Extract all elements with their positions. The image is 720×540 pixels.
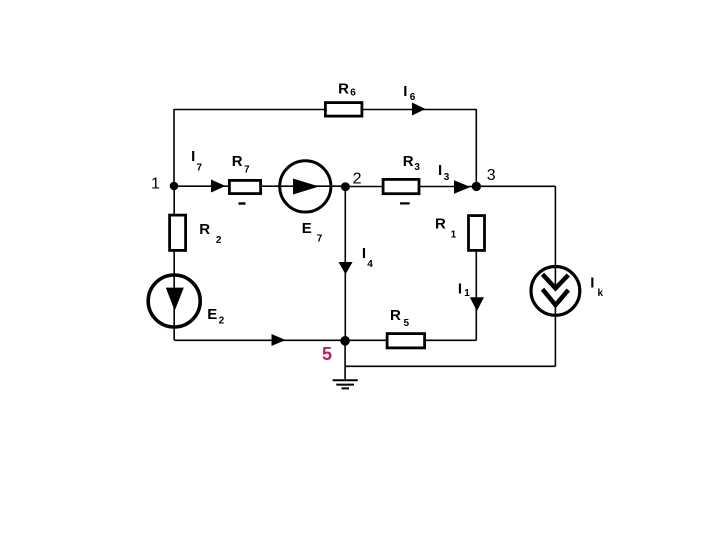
svg-text:1: 1 (151, 175, 160, 192)
current arrow I6 (403, 83, 425, 116)
svg-text:R: R (232, 153, 243, 170)
wire node2 down to node5 (344, 187, 346, 342)
wire right vertical into Ik top (554, 186, 556, 288)
node 1 (151, 175, 178, 192)
svg-text:1: 1 (451, 229, 457, 240)
svg-text:6: 6 (410, 92, 416, 103)
resistor R3 (383, 153, 420, 194)
node 5 (322, 336, 350, 364)
wire top-right vertical (down to node3) (475, 109, 477, 186)
svg-text:2: 2 (353, 171, 362, 188)
svg-text:3: 3 (414, 162, 420, 173)
current arrow I4 (339, 245, 374, 275)
wire top horizontal (174, 109, 476, 111)
svg-text:k: k (598, 288, 604, 299)
svg-text:5: 5 (404, 318, 410, 329)
current arrow I3 (438, 162, 471, 194)
svg-text:3: 3 (444, 172, 450, 183)
svg-text:6: 6 (350, 88, 356, 99)
svg-text:R: R (435, 216, 446, 233)
value dash under R3 (400, 202, 410, 204)
svg-text:I: I (590, 275, 594, 292)
ground stem (344, 341, 346, 379)
svg-text:3: 3 (487, 167, 496, 184)
svg-text:E: E (207, 306, 217, 323)
current arrow I7 (191, 148, 225, 193)
svg-text:R: R (390, 307, 401, 324)
svg-text:2: 2 (219, 316, 225, 327)
resistor R5 (387, 307, 425, 348)
svg-text:I: I (438, 162, 442, 179)
svg-text:7: 7 (197, 162, 203, 173)
svg-text:I: I (362, 245, 366, 262)
wire E2 bottom corner (173, 328, 175, 340)
resistor R2 (170, 215, 222, 250)
current arrow on bottom wire (272, 334, 286, 346)
current source Ik (531, 267, 604, 316)
wire node1 down through R2 to E2 (173, 186, 175, 274)
resistor R1 (435, 216, 485, 251)
svg-text:1: 1 (464, 288, 470, 299)
current arrow I1 (458, 280, 484, 311)
svg-text:I: I (403, 83, 407, 100)
wire node3 to right corner (476, 185, 555, 187)
wire node1 to node2 (174, 185, 345, 187)
svg-text:5: 5 (322, 344, 332, 364)
node 2 (341, 171, 362, 192)
svg-text:R: R (403, 153, 414, 170)
wire R1 vertical down (475, 251, 477, 340)
wire lower horizontal (Ik to ground stem) (345, 365, 555, 367)
resistor R6 (325, 80, 362, 116)
svg-text:R: R (338, 80, 349, 97)
source E2 (148, 275, 224, 327)
wire E2 internal (173, 274, 175, 328)
resistor R7 (229, 153, 260, 194)
wire node2 to node3 (345, 186, 476, 188)
source E7 (280, 161, 331, 245)
node 3 (472, 167, 496, 191)
svg-text:4: 4 (367, 259, 373, 270)
wire top-left vertical (node1 up) (173, 109, 175, 186)
wire bottom horizontal E2 to node5 (174, 339, 346, 341)
svg-text:I: I (191, 148, 195, 165)
svg-text:I: I (458, 280, 462, 297)
wire Ik bottom down (554, 305, 556, 366)
svg-text:R: R (199, 221, 210, 238)
svg-text:7: 7 (317, 234, 323, 245)
wire node5 to R1 bottom (345, 339, 476, 341)
svg-text:2: 2 (216, 235, 222, 246)
svg-text:E: E (302, 220, 312, 237)
svg-text:7: 7 (244, 164, 250, 175)
ground (333, 380, 358, 388)
value dash under R7 (239, 202, 246, 204)
